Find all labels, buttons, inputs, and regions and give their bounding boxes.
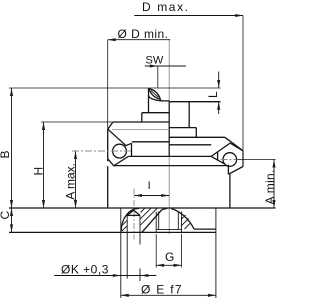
svg-text:SW: SW	[146, 55, 164, 67]
right lower ear edge	[227, 165, 229, 175]
dimension K label	[61, 263, 109, 277]
mounting hole right	[223, 153, 237, 167]
right ear inner flat	[217, 152, 219, 160]
dimension I right arrow	[161, 194, 169, 197]
svg-text:A min.: A min.	[263, 169, 277, 204]
dimension G extension left	[155, 234, 157, 268]
insert shoulder chamfer left	[142, 208, 168, 232]
dimension A min line	[273, 160, 275, 209]
dimension B line	[11, 88, 13, 208]
keyway hatch diagonal	[185, 224, 191, 230]
flange mid line left	[132, 141, 169, 143]
extension line top face B	[9, 87, 221, 89]
svg-text:G: G	[165, 250, 174, 264]
insert floor right	[194, 228, 216, 230]
keyway edge left inner	[158, 212, 160, 230]
dimension D min text	[118, 27, 169, 41]
right lower ear chamfer	[228, 167, 243, 175]
flange top far edge gray	[112, 129, 169, 131]
step 2 shoulder left	[113, 121, 169, 123]
dimension H line	[43, 122, 45, 208]
dimension A min bottom arrow	[272, 200, 275, 208]
flange lower shelf	[113, 165, 228, 167]
contact pin left edge extended	[126, 215, 128, 278]
extension line SW	[157, 66, 159, 88]
flange left edge	[107, 129, 109, 161]
svg-text:Ø D min.: Ø D min.	[118, 27, 169, 41]
dimension A min label rotated	[263, 169, 277, 204]
dimension D min line	[108, 39, 171, 41]
dimension G line	[156, 264, 181, 266]
dimension SW arrow	[150, 64, 158, 67]
svg-text:D max.: D max.	[142, 0, 190, 14]
dimension I left arrow	[134, 194, 142, 197]
right slab edge	[195, 128, 197, 138]
flange right edge	[242, 151, 244, 167]
left ear bottom chamfers	[108, 156, 129, 165]
svg-text:ØK +0,3: ØK +0,3	[61, 263, 109, 277]
dimension pin arrow left-pointing	[140, 274, 148, 277]
dimension G extension right	[181, 234, 183, 268]
right ear lower edge	[211, 156, 227, 165]
dimension G right arrow	[174, 264, 182, 267]
keyway edge right outer	[181, 212, 183, 233]
dimension D max text	[142, 0, 190, 14]
dimension H label rotated	[32, 167, 46, 176]
dimension A max label rotated	[64, 163, 78, 200]
mounting hole left	[113, 144, 127, 158]
solder cup left edge	[148, 88, 150, 113]
dimension B bottom arrow	[10, 200, 13, 208]
keyway floor	[156, 228, 181, 230]
panel top line	[9, 207, 276, 209]
body left edge	[107, 166, 109, 208]
insert bell curve left	[121, 208, 139, 231]
insert shoulder curve right	[171, 209, 194, 229]
left ear flat edge	[131, 143, 133, 156]
dimension A max bottom arrow	[74, 200, 77, 208]
dimension SW text	[146, 55, 164, 67]
body right edge	[229, 174, 231, 208]
hatch right dome area	[181, 215, 185, 219]
dimension A max top arrow	[74, 151, 77, 159]
dimension L label rotated	[206, 91, 220, 98]
svg-text:B: B	[0, 150, 12, 158]
dimension B label rotated	[0, 150, 12, 158]
dimension A min top arrow	[272, 160, 275, 168]
svg-text:I: I	[148, 180, 151, 192]
right section: top inner face	[169, 101, 220, 103]
spigot left edge and K extension	[120, 208, 122, 298]
dimension E right arrow	[208, 294, 216, 297]
dimension E left arrow	[121, 294, 129, 297]
centerline vertical axis	[168, 40, 170, 234]
step 1 shoulder left	[142, 112, 169, 114]
dimension E label	[141, 283, 183, 297]
right slab top	[169, 127, 196, 129]
cup base line	[165, 100, 170, 102]
dimension E line	[121, 294, 216, 296]
dimension G label	[165, 250, 174, 264]
flange bottom	[128, 155, 211, 157]
right ear upper edge	[211, 143, 243, 156]
dimension D max line	[134, 15, 243, 17]
dimension L upper arrow	[218, 72, 220, 89]
keyway edge left outer	[155, 212, 157, 233]
dimension K line	[54, 275, 156, 277]
step 1 edge left	[141, 113, 143, 122]
svg-text:Ø E f7: Ø E f7	[141, 283, 183, 297]
flange top right	[169, 136, 225, 138]
step 2 chamfer left	[108, 122, 113, 129]
dimension A max line	[75, 151, 77, 208]
extension line D max right	[242, 16, 244, 151]
extension line H step	[41, 121, 113, 123]
dimension H top arrow	[42, 122, 45, 130]
solder cup cavity hatch	[151, 91, 159, 97]
dimension D min arrow	[108, 38, 116, 41]
hatch bell area	[124, 215, 127, 218]
keyway edge right inner	[177, 212, 179, 230]
solder cup bottom arc	[149, 95, 165, 101]
contact pin axis dash-dot	[133, 189, 135, 240]
dimension B top arrow	[10, 88, 13, 96]
hole axis left dash	[72, 150, 132, 152]
dimension I label	[148, 180, 151, 192]
hatch group	[121, 208, 188, 231]
panel bottom and spigot face line	[9, 231, 216, 233]
dimension G left arrow	[156, 264, 164, 267]
hatch between pin and dome	[141, 208, 145, 212]
flange top right chamfer	[225, 137, 243, 151]
contact pin right edge	[139, 215, 141, 244]
spigot right edge and E extension	[215, 208, 217, 298]
hole axis right dash	[221, 159, 237, 161]
contact pin top chamfer	[127, 210, 140, 215]
flange mid line right	[169, 144, 211, 146]
dimension D max arrow	[235, 14, 243, 17]
dimension C arrows	[11, 208, 13, 232]
extension line D min left	[107, 40, 109, 130]
section edge at centerline	[168, 101, 170, 157]
dimension K arrow right-pointing	[113, 274, 121, 277]
dimension L lower arrow	[218, 102, 220, 114]
dimension I line	[134, 195, 169, 197]
dimension SW line	[145, 65, 186, 67]
contact pin shoulder	[127, 214, 140, 216]
contact pin right extension	[139, 269, 141, 282]
svg-text:L: L	[206, 91, 220, 98]
dimension H bottom arrow	[42, 200, 45, 208]
dimension C label rotated	[0, 211, 12, 220]
flange ear chamfer diagonal left	[108, 129, 132, 145]
solder cup cavity lens	[149, 89, 160, 99]
right section wall	[188, 102, 190, 128]
extension line A min hole axis	[237, 159, 276, 161]
